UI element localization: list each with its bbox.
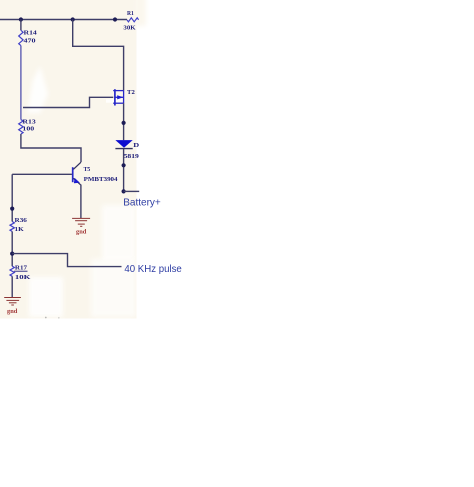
wire base rail down (11, 174, 13, 221)
wire pulse step (12, 254, 121, 267)
svg-text:R14: R14 (24, 29, 38, 36)
svg-text:R17: R17 (15, 265, 28, 272)
wire R36 to R17 (11, 232, 13, 267)
wire drain drop from mid node (73, 20, 124, 91)
ground T5 emitter (72, 218, 90, 235)
node junction dot mid diode column (122, 163, 126, 167)
svg-text:470: 470 (24, 37, 36, 44)
node junction dot mid (71, 17, 75, 21)
resistor R17 (10, 265, 30, 281)
svg-text:10K: 10K (15, 274, 31, 281)
svg-text:1K: 1K (15, 226, 24, 233)
transistor T5 (73, 162, 119, 185)
resistor R1 (123, 10, 138, 32)
wire left rail R14 to R13 (20, 46, 22, 120)
svg-text:PMBT3904: PMBT3904 (84, 176, 119, 183)
node junction dot base rail (10, 207, 14, 211)
node Battery+ label (123, 197, 161, 208)
wire Battery stub (124, 190, 140, 192)
wire gate step (23, 97, 113, 107)
svg-text:gnd: gnd (76, 230, 87, 236)
node junction dot left (19, 17, 23, 21)
svg-text:5819: 5819 (124, 153, 139, 160)
node junction dot at R1 (113, 17, 117, 21)
diode D (115, 140, 139, 160)
wire T5 emitter down (80, 185, 82, 219)
wire diode cathode down (123, 149, 125, 192)
transistor T2 (MOSFET) (113, 89, 135, 106)
ground bottom left (4, 298, 21, 315)
resistor R14 (19, 20, 38, 46)
wire R13 to T5 collector (21, 134, 81, 162)
svg-text:T2: T2 (127, 89, 135, 96)
node junction dot below T2 (122, 121, 126, 125)
node junction dot Battery (122, 189, 126, 193)
svg-text:Battery+: Battery+ (123, 197, 161, 208)
svg-text:30K: 30K (123, 25, 135, 32)
wire T5 base (12, 173, 72, 175)
svg-text:T5: T5 (84, 166, 91, 173)
resistor R13 (19, 119, 36, 134)
node junction dot pulse (10, 252, 14, 256)
node 40 KHz pulse label (124, 264, 182, 275)
svg-text:100: 100 (22, 126, 34, 133)
svg-text:R1: R1 (127, 10, 134, 17)
resistor R36 (10, 217, 28, 233)
wire top rail (0, 19, 127, 21)
svg-text:gnd: gnd (7, 309, 18, 315)
wire MOSFET source down (123, 103, 125, 140)
svg-text:40 KHz pulse: 40 KHz pulse (124, 264, 182, 275)
wire R17 to ground (11, 276, 13, 297)
svg-text:R36: R36 (15, 217, 28, 224)
svg-text:D: D (133, 142, 139, 149)
